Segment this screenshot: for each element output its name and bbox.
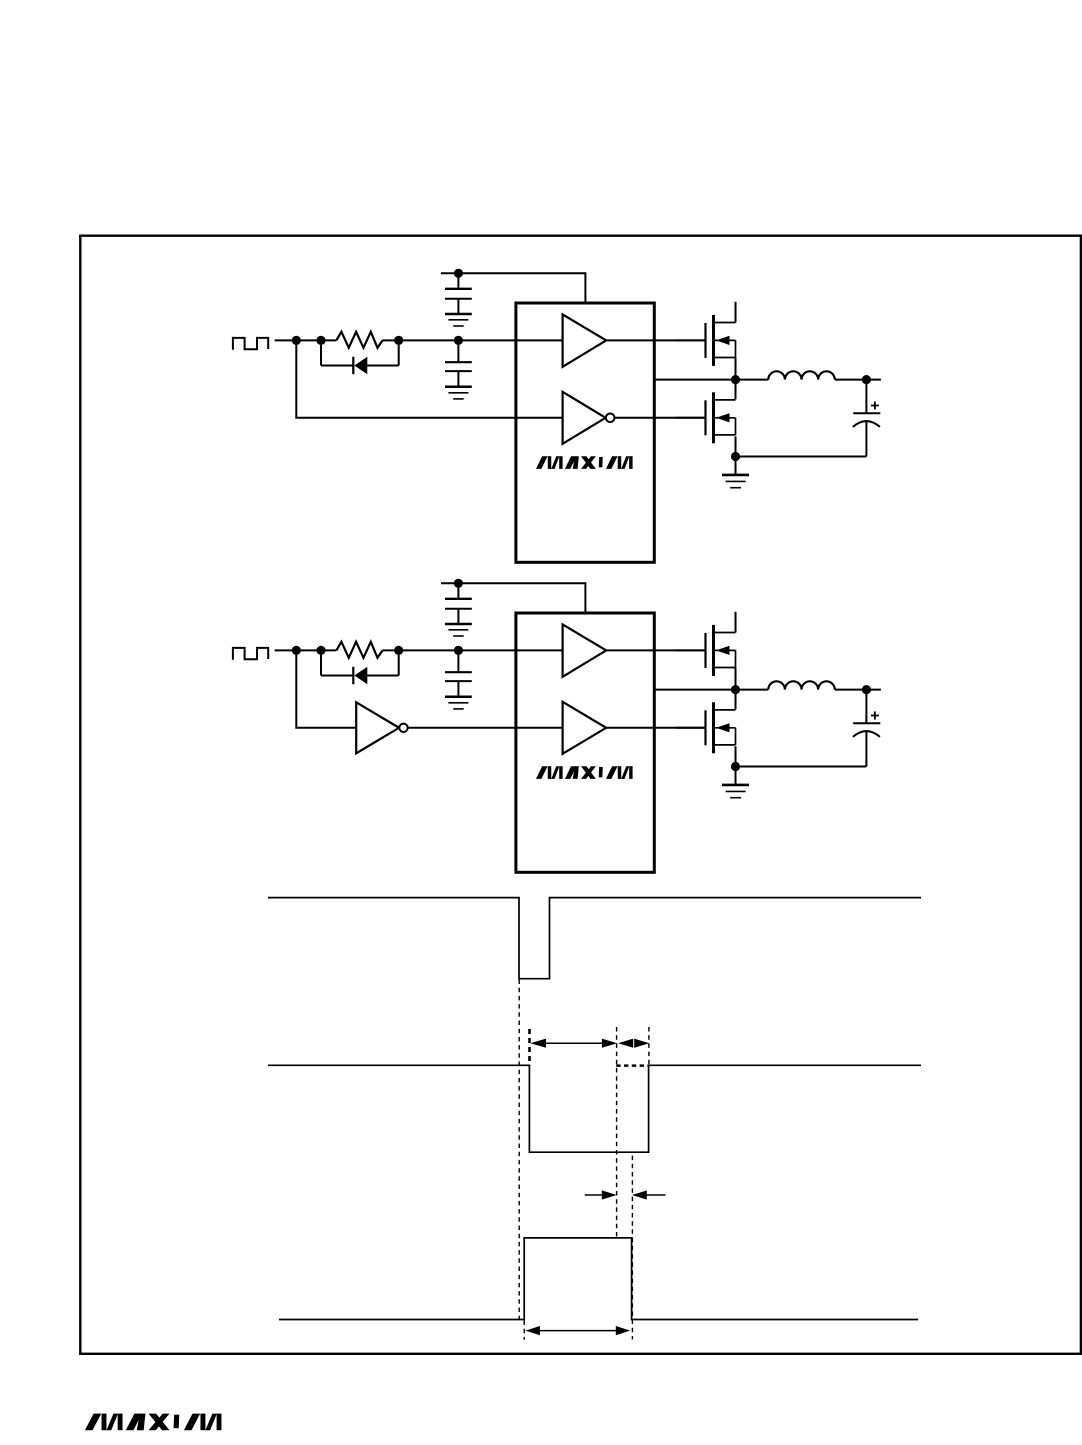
node: supply rail junction (circuit 1) xyxy=(454,269,463,278)
buffer U2A xyxy=(563,624,607,676)
wire: buffer U2A output to gate xyxy=(606,649,705,651)
node: input RC junction (circuit 1) xyxy=(454,336,463,345)
timing: dashed line at input falling edge xyxy=(518,980,520,1320)
timing: output B waveform (positive pulse) xyxy=(279,1238,918,1320)
wire: resistor to driver input (circuit 2) xyxy=(383,649,563,651)
diode D1 xyxy=(321,340,399,374)
diode D2 xyxy=(321,650,399,684)
inductor L1 xyxy=(768,371,834,379)
ground (C2a) xyxy=(445,624,472,636)
wire: bottom return rail (circuit 1) xyxy=(736,456,867,458)
ground (C1a) xyxy=(445,314,472,326)
wire: Q1 source to switch node xyxy=(735,358,737,380)
square-wave input source (circuit 1) xyxy=(233,338,268,350)
wire: input segment (circuit 2) xyxy=(275,649,337,651)
node: supply rail junction (circuit 2) xyxy=(454,579,463,588)
inverter U1B xyxy=(563,392,615,444)
transistor Q3 (high-side NMOS) xyxy=(676,625,736,676)
wire: driver mid output (circuit 2) xyxy=(653,689,736,691)
timing: output A waveform (delayed low pulse) xyxy=(268,1065,921,1152)
wire: inductor to output node (circuit 1) xyxy=(835,379,881,381)
timing: dashed line D (output A rise reference) xyxy=(648,1027,650,1066)
wire: Q1 drain supply stub xyxy=(735,302,737,323)
timing: dashed line C (output B fall reference) xyxy=(631,1156,633,1340)
wire: inductor to output node (circuit 2) xyxy=(835,689,881,691)
wire: input node to inverter input (circuit 1) xyxy=(296,340,562,417)
inverter U4 (external) xyxy=(356,702,407,753)
resistor R1 xyxy=(336,332,382,348)
wire: switch node to inductor (circuit 2) xyxy=(736,689,769,691)
wire: supply rail to driver top (circuit 1) xyxy=(441,273,585,303)
timing: propagation delay arrow (tD1) xyxy=(530,1039,617,1048)
wire: Q3 source to switch node xyxy=(735,668,737,690)
figure border frame xyxy=(80,236,1081,1354)
wire: bottom return rail (circuit 2) xyxy=(736,766,867,768)
buffer U1A xyxy=(563,314,607,366)
timing: dashed stub above output A falling edge xyxy=(528,1029,531,1065)
transistor Q1 (high-side NMOS) xyxy=(676,315,736,366)
timing: input waveform (negative pulse) xyxy=(268,898,921,979)
timing: delay-matching arrow pair (bowtie) xyxy=(618,1039,649,1048)
capacitor C2c (output, polarized) xyxy=(853,690,880,767)
timing: dead-time arrows (inward pair) xyxy=(585,1190,666,1199)
ground (C1b) xyxy=(445,387,472,399)
node: switch output (circuit 2) xyxy=(731,685,740,694)
wire: Q4 source lead xyxy=(735,746,737,766)
capacitor C2b (input) xyxy=(445,650,472,696)
timing: pulse-width arrow (output B) xyxy=(525,1326,630,1335)
capacitor C1c (output, polarized) xyxy=(853,380,880,457)
ground (C2b) xyxy=(445,697,472,709)
wire: buffer U2B output to Q4 gate xyxy=(606,727,705,729)
node: input junction (circuit 2) xyxy=(292,646,301,655)
wire: input segment (circuit 1) xyxy=(275,339,337,341)
timing: dashed line B (delay reference) xyxy=(616,1027,618,1238)
wire: resistor to driver input (circuit 1) xyxy=(383,339,563,341)
node: Q2 source junction (circuit 1) xyxy=(731,452,740,461)
capacitor C1a (supply bypass) xyxy=(445,273,472,314)
wire: inverter output to Q2 gate xyxy=(615,417,706,419)
driver IC U1 box xyxy=(516,303,654,562)
node: input junction (circuit 1) xyxy=(292,336,301,345)
driver IC U2 box xyxy=(516,613,654,872)
transistor Q2 (low-side NMOS) xyxy=(676,392,736,443)
square-wave input source (circuit 2) xyxy=(233,648,268,660)
timing: dashed stub below output B rising edge xyxy=(523,1321,525,1340)
node: resistor right (circuit 1) xyxy=(394,336,403,345)
ground (circuit 1 return) xyxy=(722,457,749,488)
resistor R2 xyxy=(336,642,382,658)
node: Q4 source junction (circuit 2) xyxy=(731,762,740,771)
wire: Q4 drain to switch node xyxy=(735,690,737,710)
node: resistor left (circuit 1) xyxy=(316,336,325,345)
wire: Q2 drain to switch node xyxy=(735,380,737,400)
MAXIM logo (U1) xyxy=(536,456,633,469)
wire: input node to external inverter (circuit 2) xyxy=(296,650,356,727)
wire: driver mid output (circuit 1) xyxy=(653,379,736,381)
wire: external inverter output to driver (circuit 2) xyxy=(408,727,563,729)
inductor L2 xyxy=(768,681,834,689)
wire: Q2 source lead xyxy=(735,436,737,456)
node: switch output (circuit 1) xyxy=(731,375,740,384)
wire: buffer U1A output to gate xyxy=(606,339,705,341)
wire: supply rail to driver top (circuit 2) xyxy=(441,583,585,613)
wire: Q3 drain supply stub xyxy=(735,612,737,633)
capacitor C2a (supply bypass) xyxy=(445,583,472,624)
capacitor C1b (input) xyxy=(445,340,472,386)
node: input RC junction (circuit 2) xyxy=(454,646,463,655)
buffer U2B xyxy=(563,702,607,754)
node: output (circuit 1) xyxy=(862,375,871,384)
ground (circuit 2 return) xyxy=(722,767,749,798)
MAXIM logo (U2) xyxy=(536,766,633,779)
MAXIM logo (footer) xyxy=(85,1414,222,1431)
node: resistor left (circuit 2) xyxy=(316,646,325,655)
timing: dashed high-level segment (output A) xyxy=(616,1064,648,1067)
node: resistor right (circuit 2) xyxy=(394,646,403,655)
wire: switch node to inductor (circuit 1) xyxy=(736,379,769,381)
transistor Q4 (low-side NMOS) xyxy=(676,702,736,753)
node: output (circuit 2) xyxy=(862,685,871,694)
